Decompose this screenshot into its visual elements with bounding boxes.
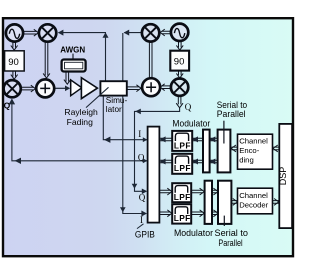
hollow arrow: channel encoder to S2P bar2 <box>231 145 237 152</box>
svg-text:Rayleigh: Rayleigh <box>64 107 98 117</box>
svg-text:lator: lator <box>106 105 122 114</box>
serial-parallel bar1 <box>203 130 210 173</box>
LPF4 box <box>172 204 191 223</box>
svg-text:Channel: Channel <box>239 136 268 145</box>
serial-parallel bar3 <box>205 181 212 224</box>
arrowhead left on Q row near left corner <box>15 158 21 164</box>
DSP box <box>279 124 292 228</box>
wire: GPIB I row to simulator bottom <box>103 96 147 140</box>
hollow arrow: oscillator OSC2 to mixer M2 <box>160 29 170 36</box>
arrowhead left into mixer M1 <box>58 30 64 36</box>
channel decoder box <box>238 188 273 214</box>
amplifier T1 <box>71 80 82 96</box>
arrowhead right into GPIB Q2 row <box>142 189 147 195</box>
LPF1 box <box>172 131 192 151</box>
svg-text:Modulator: Modulator <box>174 228 213 238</box>
svg-text:GPIB: GPIB <box>135 229 155 239</box>
connector GPIB to LPF3 <box>160 188 172 195</box>
GPIB interface box <box>148 127 160 223</box>
arrowhead up into mixer M3 bottom <box>9 98 15 104</box>
arrowhead down on Q path vertical <box>132 184 138 189</box>
svg-text:Parallel: Parallel <box>217 109 246 119</box>
connector bar3 to bar4 row2 <box>212 210 218 217</box>
connector GPIB to LPF4 <box>160 210 172 217</box>
svg-text:I: I <box>140 215 143 225</box>
arrowhead right into amplifier T1 <box>65 86 70 92</box>
svg-text:I: I <box>138 129 141 139</box>
svg-text:Serial to: Serial to <box>215 228 249 238</box>
leader tick from GPIB label to box <box>137 224 144 229</box>
svg-text:LPF: LPF <box>174 140 191 150</box>
svg-text:Decoder: Decoder <box>239 201 268 210</box>
leader line from Rayleigh Fading label to amplifiers <box>86 87 109 107</box>
connector bar3 to bar4 row1 <box>212 188 218 195</box>
oscillator OSC2 <box>171 24 188 41</box>
amplifier T2 <box>81 78 97 99</box>
hollow arrow: OSC1 down to 90 box B1 <box>11 42 18 50</box>
svg-text:Fading: Fading <box>67 117 93 127</box>
hollow connector: mixer M1 down to adder A1 <box>43 42 50 78</box>
hollow arrow: OSC2 down to 90 box B2 <box>176 41 183 50</box>
channel encoding box <box>238 134 273 169</box>
90 box B2 <box>170 51 189 71</box>
hollow arrow: oscillator OSC1 to mixer M1 <box>24 29 38 36</box>
wire: Q path from mixer M6 down-left-down into GPIB <box>135 108 180 191</box>
connector LPF1 to S2P bar1 <box>192 138 202 141</box>
leader from AWGN label to box <box>72 54 74 60</box>
adder A2 <box>142 78 160 96</box>
leader from Serial to Parallel label into bar2 <box>223 121 225 144</box>
hollow arrow: 90 box B1 down to mixer M3 <box>11 71 18 79</box>
mixer M2 <box>142 24 159 41</box>
svg-text:LPF: LPF <box>174 192 191 202</box>
svg-text:DSP: DSP <box>278 167 288 186</box>
svg-text:Q: Q <box>4 101 11 111</box>
svg-text:Modulator: Modulator <box>172 119 210 129</box>
wire: long vertical from mixer M2 line down behind simulator to GPIB I input <box>123 33 146 214</box>
svg-text:90: 90 <box>8 57 19 68</box>
adder A1 <box>36 79 54 97</box>
arrowhead left at end of M2 segment <box>124 30 130 36</box>
arrowhead right into GPIB bottom I row <box>141 211 147 217</box>
connector LPF3 to bar3 <box>191 188 204 195</box>
hollow arrow: 90 box B2 down to mixer M6 <box>176 71 183 78</box>
svg-text:ding: ding <box>239 156 254 165</box>
hollow arrow: DSP to channel encoder <box>273 145 279 152</box>
mixer M6 <box>171 79 188 96</box>
mixer M1 <box>39 24 56 41</box>
hollow arrow: simulator output to adder A2 <box>127 85 141 92</box>
arrowhead up at top of simulator-output vertical <box>103 32 109 37</box>
hollow arrow: channel decoder to DSP <box>273 199 279 206</box>
svg-text:Q: Q <box>139 193 146 203</box>
hollow arrow: mixer M6 to adder A2 <box>160 84 171 91</box>
wire: GPIB Q row to far-left and up into mixer M3 <box>12 100 147 161</box>
AWGN box <box>62 60 86 72</box>
LPF3 box <box>172 183 191 202</box>
hollow arrow: bar4 to channel decoder <box>232 199 238 206</box>
hollow arrow: mixer M6 output down (Q) <box>176 96 183 107</box>
wire: adder A1 output to amplifier T1 <box>55 87 69 89</box>
svg-text:Simu-: Simu- <box>106 96 128 105</box>
serial-parallel bar4 <box>218 181 231 224</box>
arrowhead down on long vertical <box>120 207 126 212</box>
connector LPF4 to bar3 <box>191 210 204 217</box>
connector bar1 to bar2 row1 <box>210 138 218 141</box>
svg-text:Q: Q <box>185 102 192 112</box>
hollow connector: mixer M2 down to adder A2 <box>149 42 152 78</box>
svg-text:AWGN: AWGN <box>60 45 85 54</box>
connector GPIB to LPF1 <box>160 138 172 141</box>
connector LPF2 to S2P bar1 <box>192 160 202 163</box>
svg-text:Enco-: Enco- <box>239 146 260 155</box>
leader from bottom Serial to Parallel label into bar4 <box>223 216 225 226</box>
wire: segment from mixer M2 left toward long vertical <box>124 32 142 34</box>
LPF2 box <box>172 154 192 174</box>
arrowhead left on I row near simulator corner <box>104 137 110 143</box>
arrowhead right into GPIB row Q <box>143 158 148 163</box>
svg-text:LPF: LPF <box>174 213 191 223</box>
svg-text:90: 90 <box>174 57 185 68</box>
svg-text:LPF: LPF <box>174 163 191 173</box>
mixer M3 <box>4 80 21 97</box>
hollow arrow: mixer M3 to adder A1 <box>21 85 35 92</box>
arrowhead right into GPIB row I <box>143 137 148 142</box>
oscillator OSC1 <box>6 24 23 41</box>
hollow arrow: AWGN box down to signal line <box>64 72 71 84</box>
connector GPIB to LPF2 <box>160 160 172 163</box>
wire: top feedback line into mixer M1 <box>59 32 107 34</box>
serial-parallel bar2 <box>218 130 231 173</box>
svg-text:Parallel: Parallel <box>218 238 242 248</box>
arrowhead left at top corner of Q path <box>135 109 141 115</box>
90 box B1 <box>5 51 25 71</box>
simulator box U1 <box>100 81 126 95</box>
svg-text:Channel: Channel <box>239 191 268 200</box>
wire: vertical from simulator top up to feedback line <box>105 33 107 81</box>
connector bar1 to bar2 row2 <box>210 160 218 163</box>
